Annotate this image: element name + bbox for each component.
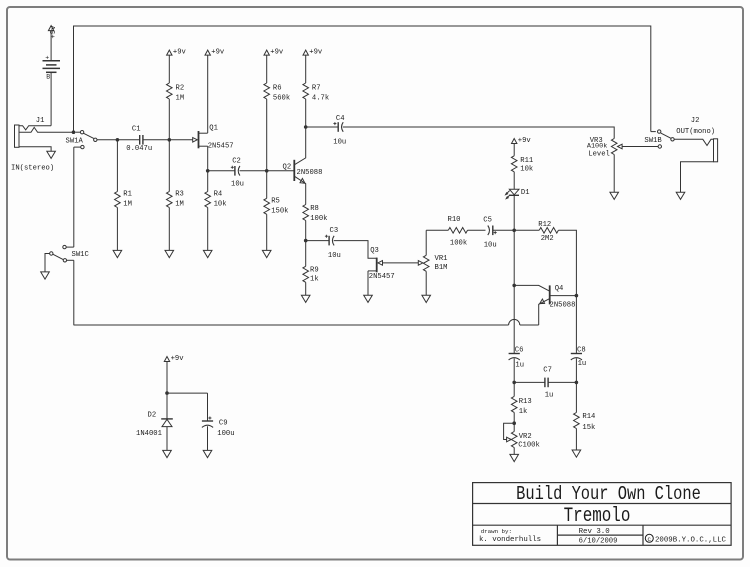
wire C8 to C7 node	[575, 358, 577, 382]
junction Q4 collector	[512, 284, 516, 288]
resistor R7 4.7k	[303, 55, 329, 127]
svg-text:Level: Level	[588, 150, 610, 158]
svg-text:1u: 1u	[515, 362, 524, 370]
svg-text:VR1: VR1	[435, 255, 448, 263]
junction R13/VR2	[512, 421, 516, 425]
svg-text:R7: R7	[312, 84, 321, 92]
svg-text:C8: C8	[577, 346, 586, 354]
svg-text:10u: 10u	[333, 138, 346, 146]
svg-text:R14: R14	[582, 413, 595, 421]
svg-text:C: C	[648, 536, 652, 543]
svg-text:A100k: A100k	[587, 142, 607, 150]
wire C1 to Q1 gate	[143, 139, 193, 141]
svg-text:Q1: Q1	[209, 124, 218, 132]
svg-text:SW1C: SW1C	[72, 251, 90, 259]
capacitor C8 1u	[571, 346, 586, 368]
power arrow +9v (R7)	[303, 49, 323, 57]
svg-text:2N5457: 2N5457	[369, 273, 395, 281]
svg-text:J2: J2	[691, 117, 700, 125]
potentiometer VR2 C100k	[504, 423, 540, 454]
svg-text:4.7k: 4.7k	[312, 94, 329, 102]
svg-text:1M: 1M	[175, 200, 184, 208]
wire C2 to Q2 base	[240, 170, 295, 172]
junction C6/C7/R13	[512, 381, 516, 385]
svg-text:R12: R12	[538, 221, 551, 229]
junction R8/R9/C3	[304, 239, 308, 243]
svg-text:R13: R13	[519, 398, 532, 406]
svg-text:R3: R3	[175, 191, 184, 199]
svg-text:C2: C2	[232, 158, 241, 166]
transistor Q2 2N5088 NPN	[283, 127, 323, 205]
capacitor C2 10u	[208, 158, 244, 189]
svg-text:C3: C3	[330, 227, 339, 235]
svg-text:0.047u: 0.047u	[126, 145, 152, 153]
svg-text:Tremolo: Tremolo	[564, 505, 631, 527]
svg-text:IN(stereo): IN(stereo)	[11, 165, 54, 173]
ground (R1)	[113, 250, 122, 257]
svg-text:10k: 10k	[520, 166, 533, 174]
junction Q4 base	[575, 294, 579, 298]
ground (R5)	[262, 250, 271, 257]
svg-text:R1: R1	[123, 191, 132, 199]
power arrow +9v (battery)	[48, 25, 58, 39]
capacitor C6 1u	[509, 346, 524, 369]
resistor R4 10k	[205, 191, 227, 251]
svg-text:2M2: 2M2	[541, 235, 554, 243]
wire Q1 source to R4	[207, 146, 209, 191]
wire +9v to D2	[166, 362, 168, 394]
svg-text:C1: C1	[132, 125, 141, 133]
resistor R9 1k	[303, 241, 319, 296]
svg-text:Q2: Q2	[283, 164, 292, 172]
jack J2 OUT(mono)	[674, 117, 717, 192]
svg-text:1M: 1M	[123, 200, 132, 208]
ground (J2 sleeve)	[676, 192, 685, 199]
wire LFO node down to C6	[513, 230, 515, 353]
ground (R3)	[165, 250, 174, 257]
svg-text:C5: C5	[483, 217, 492, 225]
LED D1	[505, 189, 529, 199]
wire C6 to C7 node	[513, 358, 515, 382]
svg-text:C9: C9	[219, 419, 228, 427]
svg-text:Rev 3.0: Rev 3.0	[579, 528, 610, 536]
ground (Q3 source)	[364, 295, 373, 302]
node A junction (J1 tip, bypass rail, SW1A)	[72, 130, 76, 134]
wire C3 to Q3 drain	[334, 241, 377, 259]
wire bottom rail (SW1C to Q4 emitter) with crossover hump	[74, 319, 539, 325]
svg-text:+9v: +9v	[270, 49, 284, 57]
wire C5 to LFO node	[493, 229, 514, 231]
wire +9v to Q1 drain	[207, 55, 209, 133]
svg-text:+9v: +9v	[518, 137, 532, 145]
svg-text:C4: C4	[336, 115, 345, 123]
power arrow +9v (R6)	[264, 49, 284, 57]
svg-text:100k: 100k	[450, 239, 467, 247]
wire SW1A common to C1	[97, 139, 139, 141]
svg-text:+9v: +9v	[309, 49, 323, 57]
resistor R10 100k	[448, 216, 468, 247]
svg-text:15k: 15k	[582, 424, 595, 432]
ground (D2)	[163, 450, 172, 457]
wire C4 to VR3	[343, 127, 614, 139]
capacitor C5 10u	[483, 217, 496, 250]
power arrow +9v (Q1 drain)	[205, 49, 225, 57]
svg-text:R2: R2	[176, 84, 185, 92]
svg-text:2N5457: 2N5457	[208, 143, 234, 151]
svg-text:R4: R4	[214, 191, 223, 199]
svg-text:1k: 1k	[519, 408, 528, 416]
resistor R2 1M	[167, 55, 185, 140]
svg-text:R11: R11	[520, 157, 533, 165]
svg-text:1u: 1u	[545, 392, 554, 400]
svg-text:1M: 1M	[176, 94, 185, 102]
junction C5/D1/R12	[512, 229, 516, 233]
power arrow +9v (supply filter)	[164, 355, 184, 363]
svg-text:6/10/2009: 6/10/2009	[579, 538, 618, 546]
title block	[473, 483, 731, 546]
label copyright	[645, 534, 726, 544]
title text Build Your Own Clone	[516, 483, 701, 505]
svg-text:+9v: +9v	[211, 49, 225, 57]
svg-text:R10: R10	[448, 216, 461, 224]
svg-text:2009B.Y.O.C.,LLC: 2009B.Y.O.C.,LLC	[655, 537, 727, 545]
svg-text:100k: 100k	[310, 215, 327, 223]
svg-text:Q3: Q3	[370, 247, 379, 255]
svg-text:Q4: Q4	[555, 285, 564, 293]
resistor R6 560k	[264, 55, 290, 171]
ground (SW1C common)	[41, 272, 50, 279]
transistor Q3 2N5457 JFET	[368, 247, 418, 295]
svg-text:Build Your Own Clone: Build Your Own Clone	[516, 483, 701, 505]
svg-text:SW1A: SW1A	[66, 137, 84, 145]
capacitor C1 0.047u	[126, 125, 152, 153]
wire VR1 top to R10	[426, 229, 448, 231]
svg-text:R6: R6	[273, 84, 282, 92]
transistor Q1 2N5457 JFET	[193, 124, 234, 150]
junction R2/R3/C1 node	[168, 138, 172, 142]
power arrow +9v (R11)	[512, 137, 532, 145]
svg-text:C100k: C100k	[518, 441, 540, 449]
resistor R11 10k	[511, 144, 533, 190]
svg-text:k. vonderhulls: k. vonderhulls	[479, 536, 541, 544]
junction R6/R5 node	[265, 169, 269, 173]
svg-text:+9v: +9v	[171, 355, 185, 363]
junction Q1 source / C2	[206, 169, 210, 173]
wire to C9	[167, 393, 208, 421]
svg-text:D2: D2	[148, 412, 157, 420]
potentiometer VR3 A100k Level	[587, 137, 658, 192]
wire D1 to junction	[513, 195, 515, 230]
resistor R8 100k	[303, 205, 328, 241]
switch SW1B	[644, 130, 674, 148]
svg-text:1N4001: 1N4001	[136, 430, 162, 438]
svg-text:OUT(mono): OUT(mono)	[676, 128, 715, 136]
ground (R9)	[301, 295, 310, 302]
resistor R3 1M	[167, 140, 184, 251]
svg-text:2N5088: 2N5088	[297, 169, 323, 177]
svg-text:+: +	[45, 54, 49, 61]
svg-text:R5: R5	[271, 198, 280, 206]
power arrow +9v (R2)	[167, 49, 187, 57]
switch SW1C	[45, 245, 89, 271]
svg-text:J1: J1	[36, 117, 45, 125]
ground (C9)	[203, 450, 212, 457]
junction R1 top	[116, 138, 120, 142]
battery B	[43, 31, 61, 126]
wire SW1A to SW1C	[73, 147, 75, 247]
svg-text:B1M: B1M	[435, 264, 448, 272]
svg-text:1k: 1k	[310, 275, 319, 283]
svg-text:R8: R8	[310, 205, 319, 213]
wire C7 to R14 node	[548, 381, 576, 383]
capacitor C7 1u	[514, 367, 553, 400]
potentiometer VR1 B1M	[418, 230, 447, 295]
svg-text:D1: D1	[521, 189, 530, 197]
svg-text:C7: C7	[543, 367, 552, 375]
ground (VR1)	[422, 295, 431, 302]
ground (VR3)	[610, 192, 619, 199]
svg-text:100u: 100u	[217, 430, 234, 438]
capacitor C9 100u	[202, 417, 235, 439]
switch SW1A	[66, 131, 98, 149]
resistor R5 150k	[264, 171, 289, 251]
svg-text:10u: 10u	[484, 241, 497, 249]
svg-text:10u: 10u	[328, 252, 341, 260]
resistor R12 2M2	[514, 221, 558, 243]
svg-text:1u: 1u	[578, 360, 587, 368]
ground (R14)	[572, 450, 581, 457]
wire R12 to Q4 base / C8	[558, 230, 576, 353]
capacitor C4 10u	[306, 115, 347, 146]
wire bypass rail (SW1A to SW1B)	[74, 26, 651, 132]
svg-text:R9: R9	[310, 267, 319, 275]
ground (R4)	[203, 250, 212, 257]
svg-text:560k: 560k	[273, 94, 290, 102]
svg-text:2N5088: 2N5088	[550, 301, 576, 309]
wire C9 to ground	[207, 426, 209, 450]
resistor R13 1k	[511, 382, 531, 423]
svg-text:150k: 150k	[271, 207, 288, 215]
wire R10 to C5	[468, 229, 486, 231]
svg-text:B: B	[46, 73, 50, 80]
diode D2 1N4001	[136, 393, 173, 450]
resistor R1 1M	[115, 140, 132, 251]
svg-text:+9v: +9v	[173, 49, 187, 57]
svg-text:C6: C6	[515, 346, 524, 354]
svg-text:SW1B: SW1B	[644, 137, 662, 145]
svg-text:10k: 10k	[214, 200, 227, 208]
svg-text:10u: 10u	[231, 180, 244, 188]
svg-text:VR2: VR2	[519, 433, 532, 441]
jack J1 IN(stereo)	[11, 117, 74, 173]
ground (VR2)	[510, 454, 519, 461]
transistor Q4 2N5088 NPN	[514, 285, 576, 325]
resistor R14 15k	[574, 382, 596, 450]
subtitle text Tremolo	[564, 505, 631, 527]
junction D2/C9	[165, 391, 169, 395]
capacitor C3 10u	[306, 227, 341, 260]
junction R7/Q2 collector/C4	[304, 125, 308, 129]
svg-text:drawn by:: drawn by:	[481, 528, 512, 535]
junction C8/C7/R14	[575, 381, 579, 385]
wire SW1C to bottom rail	[73, 260, 75, 325]
